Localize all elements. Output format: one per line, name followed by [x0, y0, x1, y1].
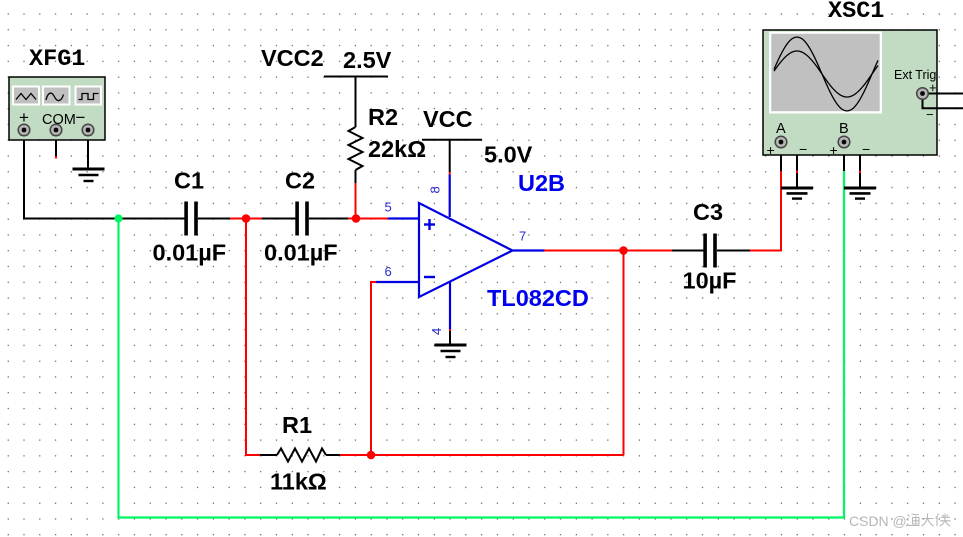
svg-text:R1: R1 — [282, 412, 312, 438]
svg-text:6: 6 — [385, 264, 392, 279]
svg-text:7: 7 — [519, 229, 526, 244]
svg-text:8: 8 — [428, 186, 443, 193]
svg-text:B: B — [839, 121, 849, 137]
svg-text:TL082CD: TL082CD — [487, 285, 589, 311]
svg-text:5: 5 — [385, 200, 392, 215]
svg-text:5.0V: 5.0V — [484, 142, 533, 168]
svg-text:C1: C1 — [174, 168, 204, 194]
svg-text:4: 4 — [429, 328, 444, 335]
svg-text:0.01µF: 0.01µF — [153, 240, 227, 266]
svg-text:−: − — [799, 141, 807, 157]
svg-text:−: − — [76, 108, 86, 127]
svg-text:VCC2: VCC2 — [261, 45, 324, 71]
svg-text:22kΩ: 22kΩ — [368, 136, 426, 162]
svg-text:XFG1: XFG1 — [29, 46, 85, 73]
svg-text:0.01µF: 0.01µF — [264, 240, 338, 266]
svg-text:11kΩ: 11kΩ — [270, 469, 327, 495]
svg-text:−: − — [862, 141, 870, 157]
svg-text:XSC1: XSC1 — [828, 0, 884, 25]
svg-text:−: − — [926, 107, 934, 122]
svg-text:R2: R2 — [368, 104, 398, 130]
svg-text:U2B: U2B — [518, 170, 565, 196]
svg-text:C2: C2 — [285, 168, 315, 194]
svg-text:2.5V: 2.5V — [343, 47, 392, 73]
svg-text:CSDN @: CSDN @ — [849, 513, 907, 529]
svg-text:A: A — [776, 121, 786, 137]
svg-text:+: + — [830, 142, 838, 158]
svg-text:+: + — [767, 142, 775, 158]
svg-text:C3: C3 — [693, 199, 723, 225]
svg-text:10µF: 10µF — [683, 268, 737, 294]
svg-text:+: + — [929, 80, 937, 95]
svg-text:VCC: VCC — [423, 106, 473, 132]
